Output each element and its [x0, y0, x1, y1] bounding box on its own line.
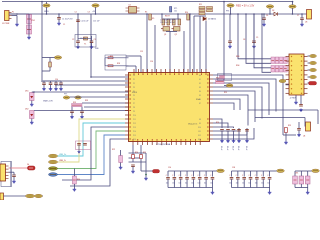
- wire C20 dn: [221, 131, 223, 140]
- wire bank3 bottom bus: [295, 187, 308, 189]
- wire U7R low 3: [213, 128, 239, 131]
- wire bank1 c4 up: [192, 171, 194, 177]
- svg-text:10u: 10u: [248, 183, 251, 185]
- wire U7L y77: [91, 76, 129, 78]
- wire bank2 c6 dn: [269, 179, 271, 188]
- ground bank2: [268, 191, 272, 194]
- LED D4 red body: [28, 166, 36, 170]
- resistor R11 body: [199, 7, 205, 9]
- capacitor bank2-C2: [242, 178, 246, 180]
- wire C24 dn: [246, 131, 248, 140]
- svg-text:R17: R17: [110, 56, 113, 58]
- wire bank1 c6 up: [205, 171, 207, 177]
- svg-text:C1: C1: [63, 24, 65, 26]
- svg-text:P5: P5: [133, 95, 135, 97]
- resistor R13 body: [199, 13, 205, 15]
- svg-text:P1: P1: [133, 79, 135, 81]
- wire VBUS to rail: [46, 7, 48, 14]
- svg-text:C16: C16: [150, 61, 153, 63]
- capacitor bank2-C0: [230, 178, 234, 180]
- wire C30 dn: [132, 167, 134, 171]
- varistor RV2 body: [27, 25, 32, 34]
- svg-text:S11: S11: [198, 131, 201, 133]
- svg-text:P9: P9: [133, 111, 135, 113]
- wire U7 top feed x162: [161, 14, 163, 19]
- wire C40 h: [9, 171, 15, 173]
- ground C2: [76, 46, 80, 49]
- ground bank1: [211, 191, 215, 194]
- wire C33 dn: [298, 130, 300, 134]
- ground C13: [80, 116, 84, 119]
- wire bank2 c5 dn: [262, 179, 264, 188]
- resistor RN2: [216, 80, 225, 84]
- ground C6: [262, 23, 266, 26]
- wire junction dots: [16, 1, 303, 93]
- power port bank3: [312, 169, 320, 172]
- IC U7 body BQ25703A: [129, 73, 210, 142]
- svg-text:S9: S9: [199, 123, 201, 125]
- capacitor C40: [12, 175, 16, 177]
- svg-text:10u: 10u: [204, 183, 207, 185]
- wire VBUS stub: [46, 2, 48, 4]
- ground R30: [73, 188, 77, 191]
- ground C30: [131, 170, 135, 173]
- wire join x34 DS1: [33, 91, 35, 93]
- svg-text:RN4: RN4: [236, 65, 239, 67]
- wire bank2 c1 up: [237, 171, 239, 177]
- ground C23: [237, 140, 241, 143]
- capacitor bank3-C0 pink: [293, 176, 298, 184]
- capacitor bank1-C0: [166, 178, 170, 180]
- svg-text:P4: P4: [133, 91, 135, 93]
- wire U7B v141: [140, 145, 142, 162]
- svg-text:10u: 10u: [179, 183, 182, 185]
- wire U7 top feed x178: [177, 14, 179, 19]
- power port PP3: [227, 4, 234, 7]
- svg-text:C15 1uF: C15 1uF: [93, 21, 99, 23]
- capacitor bank2-C6: [268, 178, 272, 180]
- resistor network RN1: [72, 104, 83, 107]
- net port red STAT: [309, 82, 317, 85]
- svg-text:R19: R19: [224, 92, 227, 94]
- ground C9: [252, 45, 256, 48]
- diode D2 body: [203, 17, 206, 21]
- capacitor bank3-C2 pink: [305, 176, 310, 184]
- svg-text:C6: C6: [266, 15, 268, 17]
- wire DS1 stub: [32, 91, 34, 93]
- wire R25 v: [285, 133, 287, 142]
- svg-text:R18: R18: [117, 63, 120, 65]
- wire C41 dn: [78, 145, 80, 148]
- wire bank1 c6 dn: [205, 179, 207, 188]
- wire gray net1: [62, 127, 125, 180]
- ground C11: [49, 88, 53, 91]
- wire bank2 c2 up: [243, 171, 245, 177]
- wire feed x194: [193, 16, 195, 73]
- svg-text:R5: R5: [152, 18, 154, 20]
- capacitor C14 inline: [76, 20, 80, 22]
- power port PP6 left: [54, 56, 61, 59]
- svg-text:S12: S12: [198, 135, 201, 137]
- svg-text:R21: R21: [143, 152, 146, 154]
- wire bank1 c4 dn: [192, 179, 194, 188]
- svg-text:10u: 10u: [210, 183, 213, 185]
- wire left branch v: [49, 58, 51, 63]
- wire bank1 top bus: [168, 170, 212, 172]
- wire C7 dn: [301, 20, 303, 24]
- net label port USB D+: [49, 154, 58, 158]
- net port J2-1: [310, 61, 317, 64]
- wire bank3 c1 up: [300, 171, 302, 177]
- capacitor C42: [83, 144, 87, 146]
- resistor R16 body: [49, 62, 52, 67]
- U7 left pins: [125, 75, 131, 139]
- svg-text:PP3: PP3: [226, 11, 229, 13]
- U7 bottom pins: [133, 139, 200, 145]
- svg-text:0.1uF: 0.1uF: [232, 146, 234, 150]
- wire J2 red stub: [308, 82, 309, 84]
- wire U7L y97: [70, 96, 129, 98]
- wire bank2 c0 up: [231, 171, 233, 177]
- transistor Q1 body: [161, 27, 170, 32]
- svg-text:10k: 10k: [174, 11, 177, 13]
- wire U7R pin99: [213, 99, 240, 110]
- wire U7L y103: [82, 102, 129, 104]
- wire R22 dn: [120, 163, 122, 167]
- wire U7R pin103: [213, 103, 234, 110]
- wire bank3 c1 dn: [300, 184, 302, 188]
- svg-text:USB_D-: USB_D-: [59, 160, 66, 162]
- svg-text:10u: 10u: [172, 183, 175, 185]
- wire C9 dn: [253, 43, 255, 46]
- ground C24: [245, 140, 249, 143]
- wire bank1 c5 up: [199, 171, 201, 177]
- wire bank1 bottom bus: [168, 187, 212, 189]
- resistor network RN4 part1: [275, 66, 279, 73]
- connector J4 body: [0, 193, 4, 200]
- svg-text:C14 0.1uF: C14 0.1uF: [81, 21, 89, 23]
- wire bank2 oval stub: [270, 170, 277, 172]
- wire cluster top: [163, 18, 180, 20]
- wire bank1 c7 dn: [211, 179, 213, 188]
- wire +5V stub: [95, 7, 97, 14]
- svg-text:10u: 10u: [267, 183, 270, 185]
- tiny designator texts: [12, 4, 299, 175]
- wire bank1 c5 dn: [199, 179, 201, 188]
- capacitor C11: [49, 83, 53, 85]
- wire J3 out pink: [9, 167, 28, 169]
- resistor R20 body: [132, 155, 135, 159]
- capacitor C11c: [59, 83, 63, 85]
- wire U7L y81: [42, 80, 129, 82]
- wire green net: [58, 131, 126, 169]
- wire RN feed 1: [246, 14, 271, 63]
- svg-text:C3: C3: [88, 12, 90, 14]
- svg-text:R25: R25: [288, 125, 291, 127]
- resistor R30 body pink: [73, 176, 77, 184]
- resistor R14 body: [207, 7, 213, 9]
- regulator U3 body: [307, 10, 312, 20]
- transistor Q2 body: [172, 27, 181, 32]
- wire feed x206: [205, 21, 207, 73]
- ground DS2: [30, 121, 34, 124]
- wire Y1 link: [78, 38, 92, 40]
- svg-text:S2: S2: [199, 83, 201, 85]
- wire C1 dn: [58, 19, 60, 22]
- wire v146 ext: [145, 162, 147, 177]
- varistor RV1 body: [27, 15, 32, 24]
- capacitor C3: [90, 41, 94, 43]
- svg-text:P16: P16: [133, 139, 136, 141]
- wire R16 dn: [49, 67, 51, 71]
- wire C11 dn: [50, 85, 52, 88]
- wire main +5V rail: [9, 13, 307, 15]
- net label red oval: [153, 170, 160, 173]
- wire U7R fan 4: [213, 91, 255, 122]
- wire C13 dn: [81, 113, 83, 116]
- wire U7R low 1: [213, 123, 228, 128]
- svg-text:0.1uF: 0.1uF: [237, 146, 239, 150]
- ground C22: [232, 140, 236, 143]
- wire bank2 c3 dn: [250, 179, 252, 188]
- wire U7L y92: [34, 91, 129, 93]
- svg-text:U2: U2: [129, 5, 131, 7]
- ground J2: [294, 101, 298, 104]
- svg-text:10u: 10u: [255, 183, 258, 185]
- svg-text:P15: P15: [133, 135, 136, 137]
- svg-text:R10: R10: [185, 12, 188, 14]
- svg-text:P2: P2: [133, 83, 135, 85]
- wire C6 up: [263, 14, 265, 18]
- svg-text:10u: 10u: [185, 183, 188, 185]
- wire C11b dn: [55, 85, 57, 88]
- connector J1 body: [5, 11, 10, 21]
- wire F1 gnd stub: [78, 148, 80, 151]
- wire bank2 gnd drop: [269, 188, 271, 192]
- power port PP5: [289, 5, 296, 8]
- svg-text:U7 BQ25703A: U7 BQ25703A: [156, 143, 171, 146]
- wire C22 dn: [233, 131, 235, 140]
- resistor R18 body: [108, 65, 113, 67]
- svg-text:RN2: RN2: [216, 78, 219, 80]
- resistor R12 body: [199, 10, 205, 12]
- capacitor bank2-C3: [249, 178, 253, 180]
- wire C40 up: [13, 172, 15, 175]
- thermistor RT1: [170, 7, 172, 13]
- wire C21 dn: [227, 131, 229, 140]
- wire RN2 feed: [223, 2, 225, 80]
- wire U7 top feed x170: [169, 31, 171, 73]
- ground C12: [70, 116, 74, 119]
- capacitor C2: [76, 41, 80, 43]
- wire left branch: [42, 57, 50, 59]
- wire bank3 c0 dn: [294, 184, 296, 188]
- svg-text:R22: R22: [112, 149, 115, 151]
- capacitor C24 bypass: [245, 130, 249, 132]
- resistor R10 body: [187, 14, 190, 20]
- wire bank1 c7 up: [211, 171, 213, 177]
- ground RV stack: [27, 36, 31, 39]
- svg-text:C2: C2: [75, 12, 77, 14]
- capacitor bank1-C1: [173, 178, 177, 180]
- capacitor bank1-C4: [192, 178, 196, 180]
- wire bank2 c2 dn: [243, 179, 245, 188]
- wire long right y110: [248, 109, 318, 111]
- wire R30 up: [73, 169, 75, 177]
- resistor R22 body pink: [119, 156, 123, 163]
- wire stub y66: [126, 65, 136, 67]
- ground C1: [57, 22, 61, 25]
- net label port CC2: [49, 173, 58, 177]
- svg-text:RV1: RV1: [32, 20, 35, 22]
- power port PP8: [75, 96, 81, 99]
- connector J2 pins: [286, 57, 308, 94]
- wire PP5 stub: [292, 2, 294, 5]
- svg-text:P0: P0: [133, 75, 135, 77]
- wire v141 ext: [140, 162, 142, 171]
- ground DS1: [30, 103, 34, 106]
- capacitor C11b: [54, 83, 58, 85]
- wire cluster mid: [166, 31, 177, 33]
- wire blue net: [58, 135, 126, 175]
- wire RN feed 0: [238, 14, 271, 59]
- U7 inner pin labels: [133, 75, 201, 141]
- wire RN2 out: [224, 85, 227, 87]
- capacitor bank2-C1: [236, 178, 240, 180]
- wire x283 drop: [282, 108, 284, 135]
- capacitor C31 pink: [220, 76, 225, 79]
- wire U7R low 0: [213, 119, 222, 128]
- svg-text:10u: 10u: [261, 183, 264, 185]
- svg-text:C9: C9: [256, 37, 258, 39]
- svg-text:D4: D4: [27, 164, 29, 166]
- wire C11 up: [50, 81, 52, 83]
- wire bank1 c3 dn: [186, 179, 188, 188]
- wire C12 dn: [71, 113, 73, 116]
- ground bank3: [306, 191, 310, 194]
- wire J2 oval stub 1: [308, 62, 310, 64]
- capacitor C41: [77, 144, 81, 146]
- wire U7R fan 0: [213, 75, 283, 108]
- U7 right pins: [207, 75, 213, 139]
- LED DS1 body: [30, 93, 35, 101]
- wire top VBUS rail: [2, 1, 292, 3]
- wire long right y117: [255, 117, 305, 119]
- ground C20: [220, 140, 224, 143]
- wire J2 dn1: [295, 95, 297, 101]
- wire C8 up: [229, 14, 231, 41]
- wire U7R fan 1: [213, 79, 276, 112]
- svg-text:S1: S1: [199, 79, 201, 81]
- svg-text:S4: S4: [199, 91, 201, 93]
- wire bank1 oval stub: [212, 170, 216, 172]
- svg-text:CE1: CE1: [295, 173, 298, 175]
- capacitor bank1-C6: [204, 178, 208, 180]
- net port VBUS3: [35, 194, 43, 197]
- resistor R21 body: [140, 155, 143, 159]
- wire bank3 c0 up: [294, 171, 296, 177]
- wire U7R fan 2: [213, 83, 269, 115]
- wire USB D+ cyan: [58, 123, 126, 156]
- wire U7 top feed x136: [135, 66, 137, 73]
- svg-text:R24: R24: [216, 122, 219, 124]
- wire C10 dn: [43, 85, 45, 88]
- wire R30 dn: [73, 184, 75, 188]
- capacitor C33: [297, 129, 301, 131]
- svg-text:10u: 10u: [166, 183, 169, 185]
- wire U5 y66: [105, 65, 129, 67]
- svg-text:RN3: RN3: [236, 56, 239, 58]
- wire bank2 c4 dn: [256, 179, 258, 188]
- wire J2 left low: [286, 84, 290, 86]
- resistor network RN4 part2: [279, 66, 283, 73]
- ground C40: [12, 180, 16, 183]
- module box Y1: [75, 35, 96, 48]
- svg-text:R33: R33: [85, 100, 88, 102]
- resistor network RN4 part3: [284, 66, 288, 73]
- connector J3 outline box: [1, 162, 12, 187]
- svg-text:P12: P12: [133, 123, 136, 125]
- svg-text:D3: D3: [272, 10, 274, 12]
- wire C8 dn: [229, 43, 231, 46]
- capacitor C8: [228, 41, 232, 43]
- wire U5 y58: [105, 57, 129, 59]
- svg-text:C31 0.1uF C32 1uF: C31 0.1uF C32 1uF: [160, 20, 175, 22]
- wire bank3 c2 up: [307, 171, 309, 177]
- svg-text:VBAT+1.8V: VBAT+1.8V: [43, 99, 54, 102]
- svg-text:10u: 10u: [191, 183, 194, 185]
- crystal Y1 body: [84, 37, 88, 40]
- svg-text:R33: R33: [73, 102, 76, 104]
- svg-text:U4: U4: [303, 136, 305, 138]
- LED DS2 body: [30, 111, 35, 119]
- ground C10: [42, 88, 46, 91]
- wire RN feed 2: [254, 14, 271, 68]
- capacitor bank1-C3: [185, 178, 189, 180]
- svg-text:C50: C50: [168, 167, 171, 169]
- wire bank1 c2 dn: [180, 179, 182, 188]
- svg-text:C15: C15: [140, 51, 143, 53]
- svg-text:R11: R11: [199, 4, 202, 6]
- svg-text:S6: S6: [199, 99, 201, 101]
- wire left y71: [42, 70, 50, 72]
- wire riser x91: [90, 14, 92, 77]
- wire to red oval: [141, 170, 153, 172]
- svg-text:C10: C10: [55, 79, 58, 81]
- power port PP10: [279, 79, 286, 82]
- wire bank1 c0 up: [167, 171, 169, 177]
- resistor R6 body: [162, 19, 165, 25]
- power port PP7: [63, 96, 69, 99]
- capacitor bank2-C4: [255, 178, 259, 180]
- svg-text:C58: C58: [232, 167, 235, 169]
- resistor R7 body: [167, 19, 170, 25]
- capacitor bank3-C1 pink: [299, 176, 304, 184]
- wire bank2 bottom bus: [232, 187, 270, 189]
- wire bank2 c1 dn: [237, 179, 239, 188]
- wire DS1 dn: [31, 101, 33, 104]
- wire bank1 c0 dn: [167, 179, 169, 188]
- wire U7R fan 5: [213, 95, 248, 126]
- wire C12 up: [71, 107, 73, 111]
- wire y81 cluster: [42, 80, 61, 82]
- capacitor C20 bypass: [220, 130, 224, 132]
- ground C8: [228, 45, 232, 48]
- wire PP6 stub: [50, 57, 55, 59]
- svg-text:S13: S13: [198, 139, 201, 141]
- svg-text:10u: 10u: [198, 183, 201, 185]
- resistor R15 body: [207, 10, 213, 12]
